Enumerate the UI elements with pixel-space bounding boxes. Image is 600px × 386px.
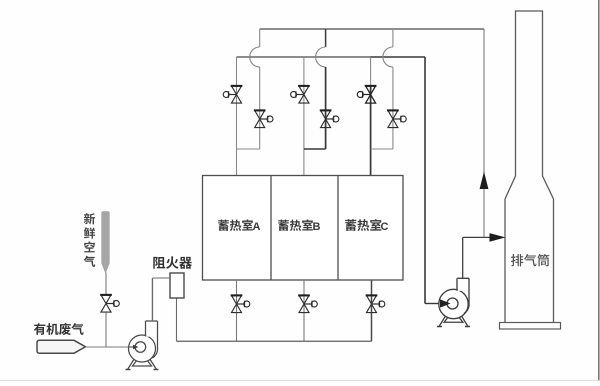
svg-text:C: C (381, 221, 389, 233)
svg-text:A: A (253, 221, 261, 233)
svg-text:B: B (313, 221, 321, 233)
